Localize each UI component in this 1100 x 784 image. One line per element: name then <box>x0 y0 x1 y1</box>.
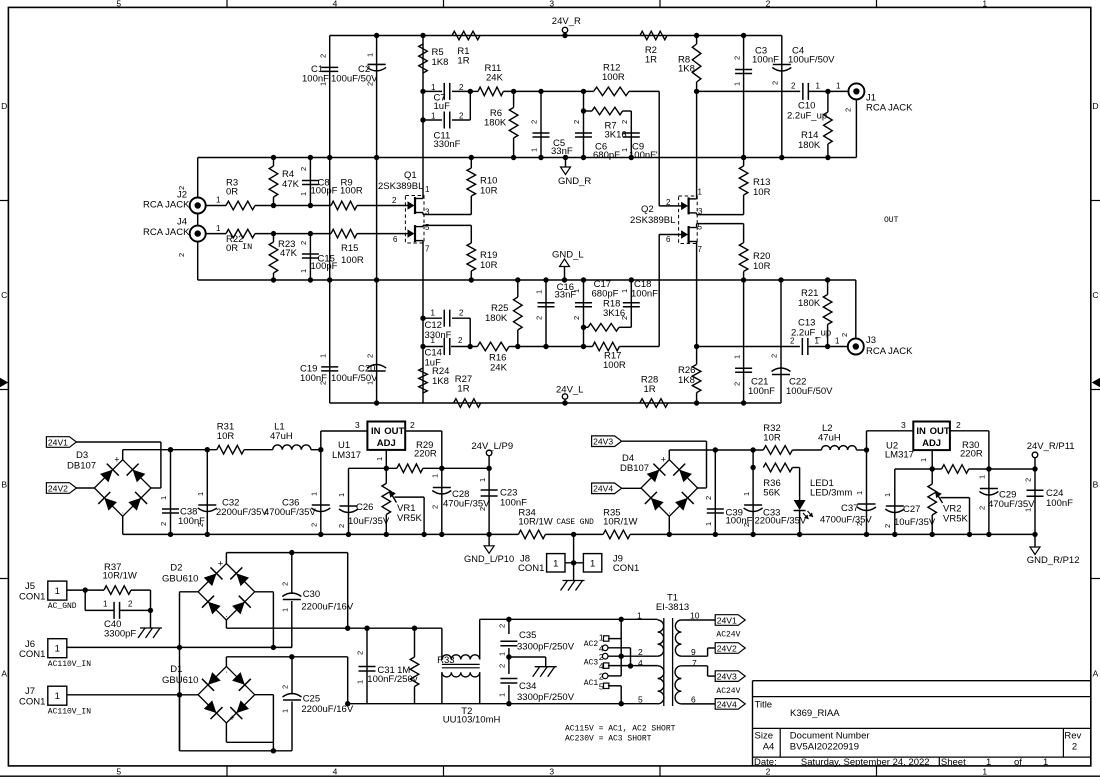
svg-text:1: 1 <box>498 693 507 697</box>
svg-text:2: 2 <box>356 651 365 655</box>
svg-text:1: 1 <box>816 82 821 91</box>
svg-text:2: 2 <box>281 582 290 586</box>
svg-text:RCA JACK: RCA JACK <box>143 227 190 238</box>
svg-text:2: 2 <box>177 253 186 257</box>
svg-text:1: 1 <box>553 558 558 569</box>
svg-text:24V4: 24V4 <box>717 699 737 709</box>
svg-text:1: 1 <box>855 491 864 495</box>
svg-text:47uH: 47uH <box>270 431 293 442</box>
svg-text:C26: C26 <box>356 502 373 513</box>
svg-text:Q2: Q2 <box>641 204 654 215</box>
svg-text:1: 1 <box>196 492 205 496</box>
svg-text:2: 2 <box>365 82 374 86</box>
svg-text:100nF: 100nF <box>748 386 775 397</box>
svg-text:.: . <box>225 665 227 674</box>
svg-text:5: 5 <box>698 223 703 232</box>
svg-text:AC110V_IN: AC110V_IN <box>48 708 91 717</box>
svg-text:1: 1 <box>216 196 221 205</box>
svg-text:2: 2 <box>732 56 741 60</box>
svg-text:B: B <box>1093 480 1099 490</box>
svg-text:1K8: 1K8 <box>678 63 695 74</box>
svg-text:1: 1 <box>55 691 60 702</box>
svg-text:2: 2 <box>770 354 779 358</box>
svg-text:1: 1 <box>431 474 440 478</box>
svg-text:R15: R15 <box>341 243 358 254</box>
svg-text:1: 1 <box>356 680 365 684</box>
svg-text:.: . <box>122 506 124 515</box>
svg-text:2: 2 <box>1072 742 1077 753</box>
svg-text:2: 2 <box>742 523 751 527</box>
svg-text:2: 2 <box>535 316 544 320</box>
svg-text:Size: Size <box>755 731 773 742</box>
svg-text:3: 3 <box>355 420 360 430</box>
svg-text:2: 2 <box>766 0 771 8</box>
svg-text:+: + <box>114 455 119 465</box>
svg-text:.: . <box>225 610 227 619</box>
svg-text:2: 2 <box>431 505 440 509</box>
svg-text:Q1: Q1 <box>404 170 417 181</box>
svg-text:1: 1 <box>883 493 892 497</box>
svg-text:1: 1 <box>365 381 374 385</box>
svg-text:1: 1 <box>55 586 60 597</box>
svg-text:2: 2 <box>498 664 507 668</box>
svg-text:1: 1 <box>978 475 987 479</box>
svg-text:5: 5 <box>638 695 643 705</box>
svg-text:10R/1W: 10R/1W <box>603 517 637 528</box>
svg-text:24V_L: 24V_L <box>556 385 583 396</box>
svg-text:2: 2 <box>956 420 961 430</box>
svg-text:D: D <box>1 101 7 111</box>
svg-text:24V3: 24V3 <box>593 437 613 447</box>
svg-text:IN: IN <box>371 426 381 437</box>
svg-text:330nF: 330nF <box>425 330 452 341</box>
svg-text:2.2uF_up: 2.2uF_up <box>787 111 827 122</box>
svg-text:2: 2 <box>177 186 186 190</box>
svg-text:Sheet: Sheet <box>941 757 966 768</box>
svg-text:C27: C27 <box>903 504 920 515</box>
svg-text:D: D <box>1092 101 1098 111</box>
svg-text:100R: 100R <box>341 255 364 266</box>
svg-text:D1: D1 <box>170 664 182 675</box>
svg-text:CON1: CON1 <box>613 563 639 574</box>
svg-text:AC3: AC3 <box>584 659 599 668</box>
svg-text:J3: J3 <box>866 335 876 346</box>
svg-text:220R: 220R <box>960 448 983 459</box>
svg-text:2: 2 <box>478 507 487 511</box>
svg-text:10R: 10R <box>217 431 235 442</box>
svg-text:2: 2 <box>392 196 397 205</box>
svg-text:47K: 47K <box>280 248 298 259</box>
svg-text:10R: 10R <box>480 260 498 271</box>
svg-text:Saturday, September 24, 2022: Saturday, September 24, 2022 <box>801 757 930 768</box>
svg-text:2: 2 <box>530 120 539 124</box>
svg-text:.: . <box>668 506 670 515</box>
svg-text:CON1: CON1 <box>19 649 45 660</box>
svg-text:3300pF: 3300pF <box>104 629 136 640</box>
svg-text:1K8: 1K8 <box>678 375 695 386</box>
svg-text:LM317: LM317 <box>332 450 361 461</box>
svg-text:100pF: 100pF <box>311 261 338 272</box>
svg-text:C: C <box>1 290 7 300</box>
svg-text:DB107: DB107 <box>67 461 96 472</box>
svg-text:1: 1 <box>836 82 841 91</box>
svg-text:1: 1 <box>281 709 290 713</box>
svg-text:10R/1W: 10R/1W <box>103 570 137 581</box>
svg-text:100uF/50V: 100uF/50V <box>788 55 835 66</box>
svg-text:2: 2 <box>319 54 328 58</box>
svg-text:AC2: AC2 <box>584 640 599 649</box>
svg-text:3: 3 <box>698 207 703 216</box>
svg-text:10R/1W: 10R/1W <box>518 517 552 528</box>
svg-text:24V_R: 24V_R <box>552 16 581 27</box>
svg-text:1: 1 <box>982 0 987 8</box>
svg-text:47uH: 47uH <box>818 433 841 444</box>
svg-text:1: 1 <box>281 608 290 612</box>
svg-text:6: 6 <box>666 235 671 244</box>
svg-text:4: 4 <box>638 658 643 668</box>
svg-text:GBU610: GBU610 <box>162 573 198 584</box>
svg-text:2: 2 <box>299 241 308 245</box>
svg-text:0R: 0R <box>226 187 238 198</box>
svg-text:1: 1 <box>337 493 346 497</box>
svg-text:24K: 24K <box>486 73 504 84</box>
svg-text:2: 2 <box>666 198 671 207</box>
svg-text:1: 1 <box>919 458 928 462</box>
svg-text:10uF/35V: 10uF/35V <box>348 516 390 527</box>
svg-text:2: 2 <box>840 333 849 337</box>
svg-text:1: 1 <box>498 652 507 656</box>
svg-text:2: 2 <box>1024 478 1033 482</box>
svg-text:4700uF/35V: 4700uF/35V <box>820 515 872 526</box>
svg-text:1: 1 <box>732 355 741 359</box>
svg-text:24V_R/P11: 24V_R/P11 <box>1027 441 1075 452</box>
svg-text:1: 1 <box>431 336 436 345</box>
svg-text:+: + <box>229 713 234 723</box>
svg-text:1: 1 <box>637 611 642 621</box>
svg-text:2: 2 <box>459 83 464 92</box>
svg-text:EI-3813: EI-3813 <box>656 602 689 613</box>
svg-text:7: 7 <box>698 245 703 254</box>
svg-text:100pF: 100pF <box>311 186 338 197</box>
svg-text:1: 1 <box>599 632 604 642</box>
svg-text:LM317: LM317 <box>885 450 914 461</box>
svg-text:2: 2 <box>704 496 713 500</box>
svg-text:A4: A4 <box>763 742 775 753</box>
svg-text:180K: 180K <box>484 118 507 129</box>
svg-text:2: 2 <box>310 523 319 527</box>
svg-text:AC1: AC1 <box>584 679 599 688</box>
svg-text:AC115V = AC1, AC2 SHORT: AC115V = AC1, AC2 SHORT <box>565 725 676 734</box>
svg-text:2: 2 <box>620 120 629 124</box>
svg-text:1: 1 <box>1043 757 1048 768</box>
svg-text:3K16: 3K16 <box>605 129 627 140</box>
svg-text:Date:: Date: <box>754 757 777 768</box>
svg-text:2: 2 <box>458 336 463 345</box>
svg-text:3: 3 <box>549 766 554 776</box>
svg-text:100R: 100R <box>340 186 363 197</box>
svg-text:1: 1 <box>431 83 436 92</box>
svg-text:100uF/50V: 100uF/50V <box>786 386 833 397</box>
svg-text:IN: IN <box>242 242 252 252</box>
svg-text:5: 5 <box>116 0 121 8</box>
svg-text:+: + <box>661 455 666 465</box>
svg-text:0R: 0R <box>226 243 238 254</box>
svg-text:2: 2 <box>498 624 507 628</box>
svg-text:CASE GND: CASE GND <box>556 519 594 527</box>
svg-text:3300pF/250V: 3300pF/250V <box>517 642 575 653</box>
svg-text:2: 2 <box>855 522 864 526</box>
svg-text:1: 1 <box>159 496 168 500</box>
svg-text:AC110V_IN: AC110V_IN <box>48 660 91 669</box>
svg-text:1: 1 <box>742 492 751 496</box>
svg-text:2: 2 <box>459 308 464 317</box>
svg-text:100R: 100R <box>602 72 625 83</box>
svg-text:Title: Title <box>755 700 773 711</box>
svg-text:1: 1 <box>103 600 108 609</box>
svg-text:2: 2 <box>281 685 290 689</box>
svg-text:+: + <box>218 559 223 569</box>
svg-text:AC230V = AC3 SHORT: AC230V = AC3 SHORT <box>565 735 652 744</box>
svg-text:24V1: 24V1 <box>717 615 737 625</box>
svg-text:UU103/10mH: UU103/10mH <box>443 715 501 726</box>
svg-text:DB107: DB107 <box>620 463 649 474</box>
svg-text:4: 4 <box>599 661 604 671</box>
svg-text:GND_L: GND_L <box>552 250 584 261</box>
svg-text:33nF: 33nF <box>551 146 573 157</box>
svg-text:6: 6 <box>691 695 696 705</box>
svg-text:3: 3 <box>425 208 430 217</box>
svg-text:1: 1 <box>216 224 221 233</box>
svg-text:10R: 10R <box>753 261 771 272</box>
svg-text:GND_R/P12: GND_R/P12 <box>1027 555 1080 566</box>
svg-text:AC_GND: AC_GND <box>48 602 77 611</box>
svg-text:2: 2 <box>337 524 346 528</box>
svg-text:GND_R: GND_R <box>558 176 591 187</box>
svg-text:1: 1 <box>572 289 581 293</box>
svg-text:56K: 56K <box>763 488 781 499</box>
svg-text:2: 2 <box>196 523 205 527</box>
svg-text:10R: 10R <box>763 433 781 444</box>
svg-text:ADJ: ADJ <box>922 438 941 449</box>
svg-text:5: 5 <box>116 766 121 776</box>
svg-text:1: 1 <box>698 188 703 197</box>
svg-text:24V_L/P9: 24V_L/P9 <box>471 441 513 452</box>
svg-text:1: 1 <box>375 457 384 461</box>
svg-text:2: 2 <box>159 522 168 526</box>
svg-text:680pF: 680pF <box>593 150 620 161</box>
svg-text:1: 1 <box>319 354 328 358</box>
svg-text:330nF: 330nF <box>434 139 461 150</box>
svg-text:24V4: 24V4 <box>593 484 613 494</box>
svg-text:220R: 220R <box>414 448 437 459</box>
svg-text:1R: 1R <box>457 56 469 67</box>
svg-text:24V1: 24V1 <box>48 437 68 447</box>
svg-text:24K: 24K <box>490 362 508 373</box>
svg-text:1: 1 <box>590 558 595 569</box>
svg-text:2: 2 <box>978 506 987 510</box>
svg-text:2: 2 <box>732 382 741 386</box>
svg-text:1: 1 <box>620 148 629 152</box>
svg-text:AC24V: AC24V <box>716 631 740 640</box>
svg-text:1: 1 <box>299 192 308 196</box>
svg-text:1R: 1R <box>645 55 657 66</box>
svg-text:4: 4 <box>333 766 338 776</box>
svg-text:2: 2 <box>844 108 853 112</box>
svg-text:C35: C35 <box>519 630 536 641</box>
svg-text:CON1: CON1 <box>518 563 544 574</box>
svg-text:1K8: 1K8 <box>432 376 449 387</box>
svg-text:5: 5 <box>599 681 604 691</box>
svg-text:2: 2 <box>410 420 415 430</box>
svg-text:OUT: OUT <box>884 216 899 225</box>
svg-text:1: 1 <box>1024 508 1033 512</box>
svg-text:1: 1 <box>535 290 544 294</box>
svg-text:2200uF/16V: 2200uF/16V <box>301 602 353 613</box>
svg-text:OUT: OUT <box>384 426 404 437</box>
svg-text:1: 1 <box>704 522 713 526</box>
svg-text:C: C <box>1092 290 1098 300</box>
svg-text:A: A <box>1 669 7 679</box>
svg-text:10uF/35V: 10uF/35V <box>894 517 936 528</box>
svg-text:1K8: 1K8 <box>432 57 449 68</box>
svg-text:J5: J5 <box>25 581 35 592</box>
svg-text:BV5AI20220919: BV5AI20220919 <box>790 742 859 753</box>
svg-text:47K: 47K <box>282 179 300 190</box>
svg-text:LED/3mm: LED/3mm <box>810 488 852 499</box>
svg-text:180K: 180K <box>798 298 821 309</box>
svg-text:1: 1 <box>620 289 629 293</box>
svg-text:3300pF/250V: 3300pF/250V <box>517 692 575 703</box>
svg-text:1: 1 <box>431 112 436 121</box>
svg-text:180K: 180K <box>485 313 508 324</box>
svg-text:180K: 180K <box>798 140 821 151</box>
svg-text:C30: C30 <box>303 589 320 600</box>
svg-text:2: 2 <box>572 316 581 320</box>
svg-text:of: of <box>1014 757 1022 768</box>
svg-text:4700uF/35V: 4700uF/35V <box>264 507 316 518</box>
svg-text:B: B <box>1 480 7 490</box>
svg-text:2: 2 <box>128 600 133 609</box>
svg-text:J7: J7 <box>25 686 35 697</box>
svg-text:1uF: 1uF <box>434 101 451 112</box>
svg-text:2: 2 <box>883 524 892 528</box>
svg-text:100nF: 100nF <box>1046 498 1073 509</box>
svg-text:1: 1 <box>299 269 308 273</box>
svg-text:CON1: CON1 <box>19 592 45 603</box>
svg-text:Document Number: Document Number <box>790 731 870 742</box>
svg-text:6: 6 <box>393 235 398 244</box>
svg-text:2: 2 <box>459 112 464 121</box>
svg-text:1R: 1R <box>457 384 469 395</box>
svg-text:24V3: 24V3 <box>717 672 737 682</box>
svg-text:1: 1 <box>310 492 319 496</box>
svg-text:2: 2 <box>791 82 796 91</box>
svg-text:Rev: Rev <box>1064 731 1081 742</box>
svg-text:D2: D2 <box>170 563 182 574</box>
svg-text:ADJ: ADJ <box>377 438 396 449</box>
svg-text:K369_RIAA: K369_RIAA <box>790 708 840 719</box>
svg-text:GBU610: GBU610 <box>162 675 198 686</box>
svg-text:100R: 100R <box>603 360 626 371</box>
svg-text:100nF': 100nF' <box>629 150 658 161</box>
svg-text:3: 3 <box>901 420 906 430</box>
svg-text:1: 1 <box>425 185 430 194</box>
svg-text:C37: C37 <box>841 503 858 514</box>
svg-text:3: 3 <box>549 0 554 8</box>
svg-text:RCA JACK: RCA JACK <box>143 200 190 211</box>
svg-text:1: 1 <box>478 478 487 482</box>
svg-text:VR5K: VR5K <box>397 513 422 524</box>
svg-text:1: 1 <box>732 82 741 86</box>
svg-text:2200uF/16V: 2200uF/16V <box>301 704 353 715</box>
svg-text:RCA JACK: RCA JACK <box>866 103 913 114</box>
svg-text:A: A <box>1093 669 1099 679</box>
svg-text:10R: 10R <box>753 187 771 198</box>
svg-text:2: 2 <box>572 120 581 124</box>
svg-text:24V2: 24V2 <box>48 483 68 493</box>
svg-text:1R: 1R <box>644 384 656 395</box>
svg-text:1: 1 <box>319 82 328 86</box>
svg-text:2.2uF_up: 2.2uF_up <box>791 328 831 339</box>
svg-text:7: 7 <box>425 245 430 254</box>
svg-text:2: 2 <box>599 672 604 682</box>
svg-text:C25: C25 <box>303 694 320 705</box>
svg-text:2: 2 <box>620 316 629 320</box>
svg-text:C34: C34 <box>519 681 536 692</box>
svg-text:2SK389BL: 2SK389BL <box>378 181 423 192</box>
svg-text:GND_L/P10: GND_L/P10 <box>464 554 514 564</box>
svg-text:1: 1 <box>431 308 436 317</box>
svg-text:2200uF/35V: 2200uF/35V <box>216 507 268 518</box>
svg-text:RCA JACK: RCA JACK <box>866 346 913 357</box>
svg-text:J4: J4 <box>177 217 187 228</box>
svg-text:VR5K: VR5K <box>943 514 968 525</box>
svg-text:1: 1 <box>986 757 991 768</box>
svg-text:10: 10 <box>690 611 700 621</box>
svg-text:2: 2 <box>299 167 308 171</box>
svg-text:100nF': 100nF' <box>631 289 660 300</box>
svg-text:2: 2 <box>365 354 374 358</box>
svg-text:AC24V: AC24V <box>716 687 740 696</box>
svg-text:1: 1 <box>365 53 374 57</box>
svg-text:5: 5 <box>425 223 430 232</box>
svg-text:1: 1 <box>530 148 539 152</box>
svg-text:24V2: 24V2 <box>717 643 737 653</box>
svg-text:D3: D3 <box>76 450 88 461</box>
svg-text:1: 1 <box>55 644 60 655</box>
svg-text:2SK389BL: 2SK389BL <box>630 215 675 226</box>
svg-text:2: 2 <box>771 81 780 85</box>
svg-text:2: 2 <box>319 381 328 385</box>
svg-text:10R: 10R <box>480 186 498 197</box>
svg-text:4: 4 <box>333 0 338 8</box>
svg-text:IN: IN <box>916 426 926 437</box>
svg-text:OUT: OUT <box>930 426 950 437</box>
svg-text:CON1: CON1 <box>19 697 45 708</box>
